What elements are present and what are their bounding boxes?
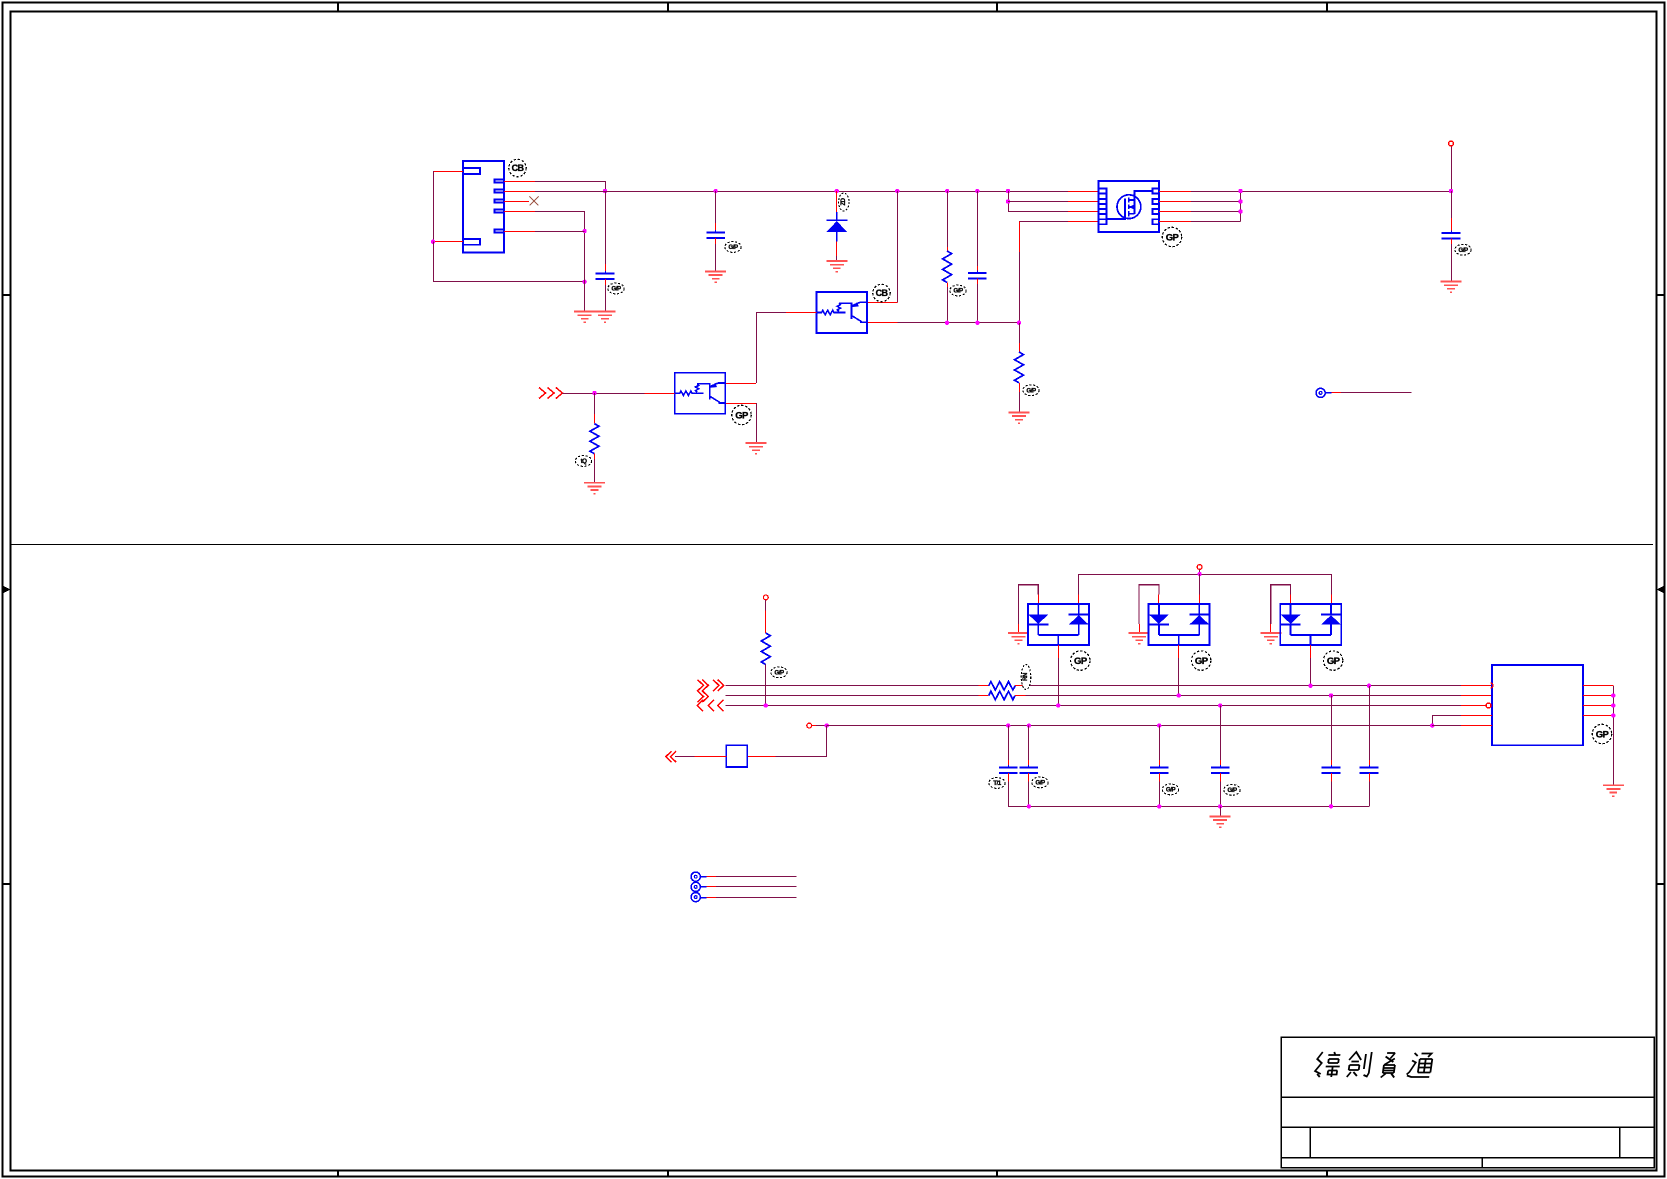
wire bus line3 y705.5 <box>726 705 1461 707</box>
pin hook U4 pin1 <box>1491 683 1494 688</box>
wire riser to U3 collector <box>756 313 758 384</box>
label U2 <box>873 284 890 301</box>
label C8 <box>1224 785 1240 796</box>
wire CN1 pin3 no-connect <box>504 201 529 203</box>
pin P2 target <box>1316 388 1325 397</box>
pin bubble U4 pin3 <box>1486 703 1491 708</box>
wire U3 input <box>562 393 644 395</box>
transistor Q1 MOSFET package <box>1099 181 1160 232</box>
chevrons FB1 left <box>666 751 676 762</box>
svg-text:GP: GP <box>735 410 749 421</box>
ground below C1 <box>595 312 616 323</box>
svg-text:G/P: G/P <box>953 288 963 295</box>
label D1 vertical <box>839 193 849 211</box>
zener diode D1 <box>835 189 839 193</box>
capacitor C6 <box>1020 765 1039 776</box>
svg-text:G/P: G/P <box>728 244 738 251</box>
capacitor C4 <box>1442 231 1461 242</box>
ground below C4 <box>1441 282 1462 293</box>
capacitor C4 vertical <box>1451 191 1453 218</box>
node junction at x584 <box>582 280 586 284</box>
company logo text <box>1314 1052 1433 1078</box>
connector CN1 <box>463 161 504 253</box>
svg-text:tQ: tQ <box>581 458 588 465</box>
label C4 <box>1455 244 1471 255</box>
label D2 <box>1071 651 1090 670</box>
resistor R7 vertical <box>1019 323 1021 343</box>
wire capacitor C9 vertical <box>1329 693 1333 697</box>
wire diode D3 top pins <box>1199 574 1201 595</box>
label U3 <box>732 405 751 424</box>
wire diode D4 top pins <box>1331 574 1333 595</box>
pin P1 top right <box>1451 146 1453 191</box>
resistor R6 inline <box>989 691 1015 699</box>
wire to opto U2 collector <box>868 302 897 304</box>
pin P4 <box>1197 565 1202 570</box>
ground below R7 <box>1009 412 1030 423</box>
node junction pin1/pin2 <box>603 189 607 193</box>
label R7 <box>1023 385 1039 396</box>
label Q1 <box>1162 227 1181 246</box>
ferrite bead FB1 <box>726 745 747 767</box>
wire left vertical lower <box>433 242 435 282</box>
label C1 <box>608 283 624 294</box>
svg-text:G/P: G/P <box>1026 387 1036 394</box>
svg-text:G/P: G/P <box>1458 247 1468 254</box>
capacitor C9 <box>1322 765 1341 776</box>
wire U2 input <box>786 312 817 314</box>
wire bus line1 y686 <box>726 685 979 687</box>
wire capacitor C6 vertical <box>1027 723 1031 727</box>
wire capacitor C10 vertical <box>1367 684 1371 688</box>
wire bus line2 y695.6 <box>726 695 979 697</box>
wire Q1 pin2 <box>1008 201 1068 203</box>
resistor R2 vertical <box>945 189 949 193</box>
wire capacitor C8 vertical <box>1218 703 1222 707</box>
label C6 <box>1032 777 1048 788</box>
wire CN1 pin top-left notch to left vertical <box>433 171 463 173</box>
label C7 <box>1162 784 1178 795</box>
wire cap C1 vertical <box>605 191 607 264</box>
resistor R4 vertical <box>765 600 767 611</box>
svg-text:GP: GP <box>1195 656 1209 667</box>
ground below R3 <box>584 483 605 494</box>
title block <box>1281 1037 1654 1168</box>
wire to bottom-left notch <box>433 241 463 243</box>
svg-text:G/P: G/P <box>774 670 784 677</box>
transistor U3 digital <box>675 373 726 414</box>
capacitor C8 <box>1211 765 1230 776</box>
capacitor C3 <box>968 271 987 282</box>
label RN vertical <box>1021 665 1031 690</box>
node junction left <box>431 240 435 244</box>
ground at diode D2 <box>1008 633 1029 644</box>
wire drain tie vertical x1240 <box>1240 191 1242 222</box>
label C5 <box>989 778 1005 789</box>
wire main VCC rail y191 <box>535 191 1068 193</box>
svg-text:GP: GP <box>1074 656 1088 667</box>
svg-text:RN: RN <box>1023 673 1029 681</box>
label U4 <box>1592 724 1611 743</box>
ground below CN1 <box>574 312 595 323</box>
wire capacitor C5 vertical <box>1006 723 1010 727</box>
wire CN1 pin4 <box>504 211 535 213</box>
wire CN1 pin2 <box>504 191 535 193</box>
wire U3 emitter to ground <box>726 403 756 405</box>
wire down to ground1 <box>584 282 586 312</box>
wire Q1 right pins <box>1159 191 1191 193</box>
svg-text:GP: GP <box>1327 656 1341 667</box>
svg-text:G/P: G/P <box>1166 787 1176 794</box>
capacitor C3 vertical <box>975 189 979 193</box>
svg-text:CB: CB <box>876 288 889 298</box>
resistor R4 body <box>761 633 770 665</box>
svg-text:G/P: G/P <box>1035 780 1045 787</box>
wire FB1 left <box>695 756 727 758</box>
resistor R7 body <box>1015 352 1024 383</box>
resistor R3 vertical <box>594 393 596 414</box>
wire diode D2 top pins <box>1078 574 1080 595</box>
ground below C2 <box>705 271 726 282</box>
svg-text:G/P: G/P <box>611 286 621 293</box>
off-sheet torn marks bus left <box>697 680 723 712</box>
wire y725 line <box>827 725 1432 727</box>
wire gate net horizontal y323 <box>868 322 897 324</box>
capacitor C7 <box>1150 765 1169 776</box>
wire from P2 <box>1325 392 1331 394</box>
resistor R5 inline <box>989 682 1015 690</box>
label D4 <box>1323 651 1342 670</box>
svg-text:CB: CB <box>512 163 525 173</box>
capacitor C2 <box>706 230 725 241</box>
label R2 <box>950 285 966 296</box>
pin P5 <box>807 723 812 728</box>
wire gate vertical riser <box>1019 222 1021 252</box>
wire D4 bottom pin <box>1310 645 1312 658</box>
wire drop to filter box <box>826 726 828 757</box>
wire ground drop <box>1220 806 1222 816</box>
wire cap C2 vertical <box>713 189 717 193</box>
wire pin4 vertical <box>584 211 586 282</box>
svg-text:ZD: ZD <box>841 197 847 205</box>
label R3 <box>575 456 591 467</box>
input chevrons <box>539 388 562 399</box>
wire CN1 pin1 <box>504 181 535 183</box>
wire diode rail y574 <box>1079 574 1331 576</box>
IC U4 box <box>1492 665 1583 745</box>
pins P6 P7 P8 <box>691 872 700 881</box>
wire Q1 gate <box>1019 221 1068 223</box>
wire U4 right pins <box>1583 685 1614 687</box>
ground at diode D3 <box>1129 633 1150 644</box>
label D3 <box>1192 651 1211 670</box>
wire D3 bottom pin <box>1178 645 1180 658</box>
wire left vertical <box>433 171 435 242</box>
capacitor C1 <box>596 271 615 282</box>
ground below U3 <box>746 443 767 454</box>
wire U4 pin5 <box>1432 725 1461 727</box>
wire bottom return y806 <box>1008 806 1369 808</box>
resistor R3 body <box>590 424 599 454</box>
svg-text:G/P: G/P <box>1227 787 1237 794</box>
capacitor C10 <box>1360 765 1379 776</box>
diode D2 dual package <box>1028 604 1089 645</box>
diode D3 dual package <box>1149 604 1210 645</box>
ground at diode D4 <box>1260 633 1281 644</box>
wire CN1 pin5 <box>504 231 535 233</box>
ground below D1 <box>826 261 847 272</box>
no-connect X <box>530 197 539 206</box>
diode D4 dual package <box>1280 604 1341 645</box>
wire bottom horizontal <box>433 281 585 283</box>
wire D2 bottom pin <box>1058 645 1060 658</box>
wire riser x897 <box>895 189 899 193</box>
transistor U2 digital <box>817 292 868 333</box>
ground right <box>1603 785 1624 796</box>
label CB for connector CN1 <box>509 159 526 176</box>
label R4 <box>771 667 787 678</box>
pin P3 <box>763 595 768 600</box>
wire right tie vertical <box>1613 686 1615 786</box>
capacitor C5 <box>999 765 1018 776</box>
node junction pin5 <box>582 229 586 233</box>
svg-text:GP: GP <box>1166 232 1180 243</box>
label C2 <box>725 242 741 253</box>
wire Q1 pin3 <box>1008 211 1068 213</box>
wire source tie x1008 <box>1006 189 1010 193</box>
resistor R2 body <box>943 251 952 283</box>
wire capacitor C7 vertical <box>1157 723 1161 727</box>
ground bottom <box>1210 816 1231 827</box>
svg-text:T/1: T/1 <box>993 780 1001 787</box>
wire U4 pin4 step <box>1461 715 1492 717</box>
svg-text:GP: GP <box>1596 729 1610 740</box>
